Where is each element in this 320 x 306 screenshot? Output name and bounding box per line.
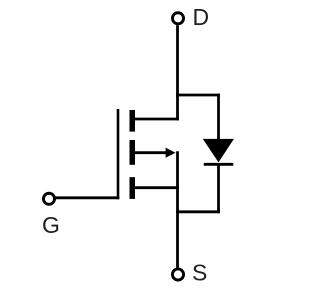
wire: drain branch to diode anode (horizontal)	[176, 94, 220, 97]
svg-text:D: D	[193, 4, 210, 30]
wire: source vertical to S terminal	[176, 151, 179, 267]
transistor Q1 body arrow head	[166, 148, 176, 158]
wire: diode anode vertical	[217, 94, 220, 140]
wire: G terminal to gate line	[55, 196, 119, 199]
terminal D	[172, 13, 183, 24]
transistor Q1 gate line	[117, 109, 120, 199]
transistor Q1 body channel bar	[130, 140, 136, 165]
wire: drain vertical from D terminal to drain-bar junction	[176, 25, 179, 120]
diode D1 cathode bar	[204, 163, 234, 166]
diode D1 body diode anode triangle	[203, 139, 234, 163]
transistor Q1 drain channel bar	[130, 110, 136, 132]
transistor Q1 source channel bar	[130, 177, 136, 199]
wire: source branch to diode cathode (horizontal)	[176, 210, 220, 213]
wire: diode cathode vertical	[217, 164, 220, 214]
svg-text:S: S	[192, 260, 207, 286]
wire: source bar to source vertical	[135, 186, 179, 189]
svg-text:G: G	[42, 212, 60, 238]
transistor Q1 body arrow shaft	[135, 151, 167, 154]
wire: drain bar to drain vertical	[135, 118, 179, 121]
terminal G	[43, 193, 54, 204]
terminal S	[172, 269, 183, 280]
